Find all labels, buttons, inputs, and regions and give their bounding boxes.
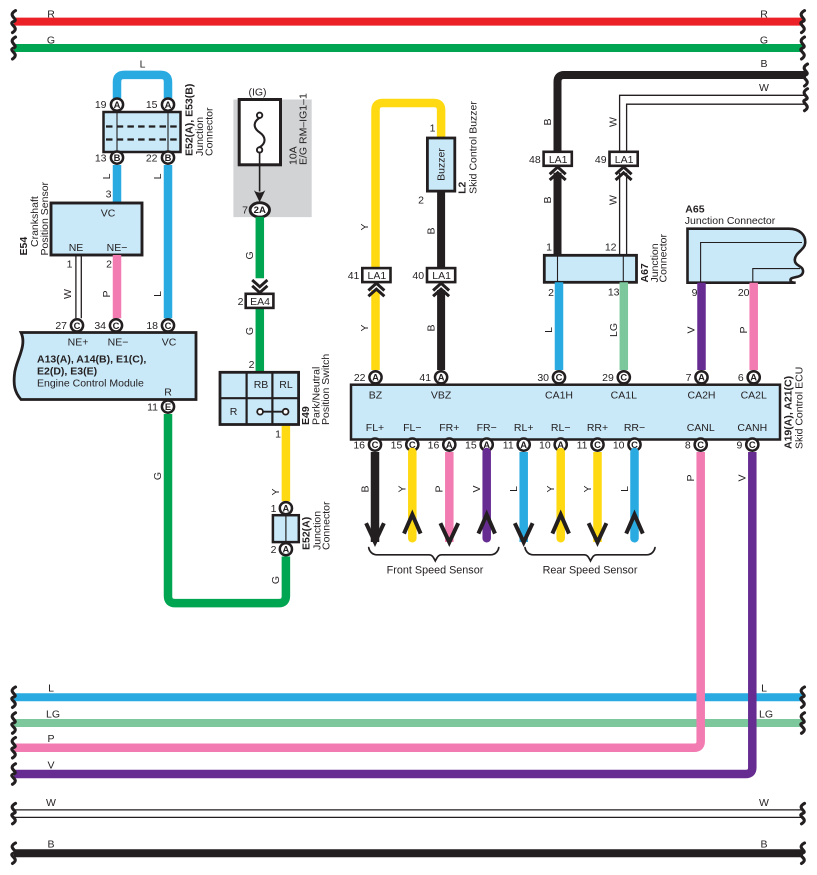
- svg-text:L: L: [48, 683, 54, 695]
- svg-text:27: 27: [55, 320, 67, 332]
- svg-text:Connector: Connector: [321, 501, 333, 550]
- svg-text:L: L: [152, 291, 164, 297]
- svg-text:Junction Connector: Junction Connector: [685, 215, 776, 227]
- svg-text:18: 18: [146, 320, 158, 332]
- svg-text:RR−: RR−: [624, 422, 645, 434]
- svg-text:6: 6: [738, 372, 744, 384]
- svg-text:L: L: [101, 173, 113, 179]
- svg-text:LG: LG: [759, 709, 773, 721]
- svg-text:V: V: [686, 326, 698, 333]
- svg-text:C: C: [556, 372, 563, 383]
- svg-text:Rear Speed Sensor: Rear Speed Sensor: [543, 565, 638, 577]
- svg-text:1: 1: [275, 429, 281, 441]
- svg-text:LA1: LA1: [368, 270, 387, 282]
- svg-text:C: C: [594, 439, 601, 450]
- svg-text:10: 10: [539, 439, 551, 451]
- svg-text:G: G: [152, 472, 164, 480]
- svg-text:W: W: [759, 797, 769, 809]
- svg-text:L: L: [761, 683, 767, 695]
- svg-text:P: P: [101, 290, 113, 297]
- svg-text:CA2H: CA2H: [687, 390, 715, 402]
- svg-text:RL−: RL−: [551, 422, 571, 434]
- svg-text:30: 30: [537, 372, 549, 384]
- svg-text:V: V: [47, 760, 54, 772]
- svg-text:11: 11: [503, 439, 514, 451]
- svg-text:CANH: CANH: [737, 422, 767, 434]
- svg-text:22: 22: [354, 372, 366, 384]
- svg-text:EA4: EA4: [250, 296, 270, 308]
- svg-text:A65: A65: [685, 204, 704, 216]
- svg-text:C: C: [165, 320, 172, 331]
- svg-text:V: V: [737, 474, 749, 481]
- svg-text:B: B: [425, 324, 437, 331]
- svg-text:C: C: [74, 320, 81, 331]
- svg-text:15: 15: [391, 439, 403, 451]
- svg-text:9: 9: [692, 287, 698, 299]
- svg-text:R: R: [230, 406, 238, 418]
- svg-text:NE−: NE−: [108, 337, 129, 349]
- svg-text:NE−: NE−: [107, 242, 128, 254]
- svg-text:2: 2: [238, 296, 244, 308]
- svg-text:Y: Y: [359, 223, 371, 230]
- svg-text:2A: 2A: [254, 205, 266, 216]
- svg-text:B: B: [760, 839, 767, 851]
- svg-text:A: A: [114, 99, 121, 110]
- svg-text:P: P: [434, 485, 446, 492]
- svg-text:FL+: FL+: [366, 422, 384, 434]
- svg-text:C: C: [620, 372, 627, 383]
- svg-text:8: 8: [685, 439, 691, 451]
- svg-text:G: G: [760, 35, 768, 47]
- svg-text:B: B: [359, 485, 371, 492]
- svg-text:(IG): (IG): [248, 87, 266, 99]
- svg-text:CA2L: CA2L: [741, 390, 767, 402]
- svg-text:13: 13: [608, 286, 620, 298]
- svg-text:W: W: [759, 82, 769, 94]
- svg-text:W: W: [62, 289, 74, 299]
- svg-text:A: A: [698, 372, 705, 383]
- svg-text:LA1: LA1: [432, 270, 451, 282]
- svg-text:19: 19: [95, 99, 107, 111]
- svg-text:L: L: [619, 486, 631, 492]
- svg-text:CA1H: CA1H: [545, 390, 573, 402]
- svg-text:A13(A), A14(B), E1(C),: A13(A), A14(B), E1(C),: [37, 354, 146, 366]
- svg-text:LA1: LA1: [615, 154, 634, 166]
- svg-text:NE: NE: [69, 242, 84, 254]
- svg-text:41: 41: [419, 372, 431, 384]
- svg-text:Y: Y: [359, 324, 371, 331]
- svg-text:1: 1: [546, 242, 552, 254]
- svg-text:11: 11: [147, 401, 158, 413]
- svg-text:A: A: [283, 544, 290, 555]
- svg-text:29: 29: [602, 372, 614, 384]
- svg-text:1: 1: [430, 123, 436, 135]
- svg-text:15: 15: [465, 439, 477, 451]
- svg-text:FL−: FL−: [403, 422, 421, 434]
- svg-text:22: 22: [146, 152, 158, 164]
- svg-text:R: R: [164, 387, 172, 399]
- svg-text:Skid Control Buzzer: Skid Control Buzzer: [468, 101, 480, 194]
- svg-text:P: P: [685, 474, 697, 481]
- svg-text:RB: RB: [254, 379, 269, 391]
- svg-text:VC: VC: [101, 208, 116, 220]
- svg-text:Position Switch: Position Switch: [320, 354, 332, 425]
- svg-text:B: B: [542, 196, 554, 203]
- svg-text:1: 1: [271, 503, 277, 515]
- svg-text:Position Sensor: Position Sensor: [39, 181, 51, 255]
- svg-text:B: B: [425, 227, 437, 234]
- svg-text:7: 7: [242, 205, 248, 217]
- svg-text:A: A: [165, 99, 172, 110]
- svg-text:LG: LG: [46, 709, 60, 721]
- svg-text:49: 49: [595, 154, 607, 166]
- svg-text:E/G RM–IG1–1: E/G RM–IG1–1: [298, 93, 310, 165]
- svg-text:A: A: [283, 503, 290, 514]
- svg-text:VC: VC: [162, 337, 177, 349]
- svg-text:2: 2: [548, 287, 554, 299]
- svg-text:7: 7: [686, 372, 692, 384]
- svg-text:Connector: Connector: [204, 107, 216, 156]
- svg-text:Y: Y: [545, 485, 557, 492]
- svg-text:L: L: [508, 486, 520, 492]
- svg-text:A: A: [372, 372, 379, 383]
- svg-text:E2(D), E3(E): E2(D), E3(E): [37, 366, 97, 378]
- svg-text:20: 20: [738, 287, 750, 299]
- svg-text:Front Speed Sensor: Front Speed Sensor: [387, 565, 484, 577]
- svg-text:B: B: [760, 58, 767, 70]
- svg-text:RL+: RL+: [514, 422, 534, 434]
- svg-text:1: 1: [67, 259, 73, 271]
- svg-text:10: 10: [613, 439, 625, 451]
- svg-text:Buzzer: Buzzer: [436, 148, 448, 181]
- svg-text:RR+: RR+: [587, 422, 608, 434]
- svg-text:G: G: [270, 576, 282, 584]
- svg-text:A: A: [750, 372, 757, 383]
- svg-text:L: L: [140, 59, 146, 71]
- svg-text:G: G: [47, 35, 55, 47]
- svg-text:Connector: Connector: [658, 234, 670, 283]
- svg-text:16: 16: [428, 439, 440, 451]
- svg-text:16: 16: [353, 439, 365, 451]
- svg-text:L: L: [152, 173, 164, 179]
- svg-text:3: 3: [106, 189, 112, 201]
- svg-text:CANL: CANL: [687, 422, 715, 434]
- svg-text:C: C: [697, 439, 704, 450]
- svg-text:FR−: FR−: [477, 422, 497, 434]
- svg-text:R: R: [760, 8, 768, 20]
- svg-text:2: 2: [271, 544, 277, 556]
- svg-text:Y: Y: [270, 488, 282, 495]
- svg-text:A: A: [438, 372, 445, 383]
- svg-text:C: C: [749, 439, 756, 450]
- svg-text:LG: LG: [608, 323, 620, 337]
- svg-text:2: 2: [418, 195, 424, 207]
- svg-text:Skid Control ECU: Skid Control ECU: [794, 367, 806, 449]
- svg-text:W: W: [607, 117, 619, 127]
- svg-text:Y: Y: [397, 485, 409, 492]
- svg-text:E: E: [165, 401, 171, 412]
- svg-text:P: P: [47, 733, 54, 745]
- svg-text:P: P: [738, 326, 750, 333]
- svg-text:G: G: [244, 327, 256, 335]
- svg-text:15: 15: [146, 99, 158, 111]
- svg-text:W: W: [46, 797, 56, 809]
- svg-text:C: C: [113, 320, 120, 331]
- svg-text:R: R: [47, 8, 55, 20]
- svg-text:B: B: [47, 839, 54, 851]
- svg-text:LA1: LA1: [549, 154, 568, 166]
- svg-text:12: 12: [605, 242, 617, 254]
- svg-text:B: B: [542, 118, 554, 125]
- svg-text:A: A: [446, 439, 453, 450]
- svg-text:RL: RL: [279, 379, 293, 391]
- svg-text:CA1L: CA1L: [611, 390, 637, 402]
- svg-text:L: L: [543, 327, 555, 333]
- svg-text:48: 48: [529, 154, 541, 166]
- svg-text:40: 40: [412, 270, 424, 282]
- svg-text:B: B: [165, 152, 172, 163]
- svg-text:13: 13: [95, 152, 107, 164]
- svg-text:FR+: FR+: [439, 422, 459, 434]
- svg-text:W: W: [607, 195, 619, 205]
- svg-text:11: 11: [577, 439, 588, 451]
- svg-text:NE+: NE+: [68, 337, 89, 349]
- svg-text:BZ: BZ: [369, 390, 383, 402]
- svg-text:G: G: [244, 251, 256, 259]
- svg-text:2: 2: [106, 259, 112, 271]
- svg-text:Engine Control Module: Engine Control Module: [37, 378, 144, 390]
- svg-text:2: 2: [249, 359, 255, 371]
- svg-text:V: V: [471, 485, 483, 492]
- svg-text:VBZ: VBZ: [431, 390, 452, 402]
- svg-text:A: A: [520, 439, 527, 450]
- svg-text:41: 41: [348, 270, 360, 282]
- svg-text:C: C: [372, 439, 379, 450]
- svg-text:34: 34: [94, 320, 106, 332]
- svg-text:9: 9: [736, 439, 742, 451]
- svg-text:B: B: [114, 152, 121, 163]
- svg-text:Y: Y: [582, 485, 594, 492]
